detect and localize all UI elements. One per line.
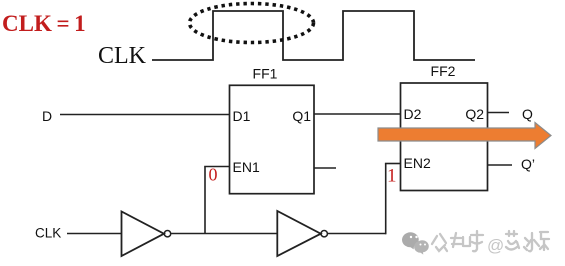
svg-text:CLK: CLK [35,226,61,241]
svg-text:EN2: EN2 [404,155,431,171]
svg-text:Q1: Q1 [292,108,311,124]
svg-text:Q’: Q’ [521,156,535,172]
svg-text:FF1: FF1 [253,66,278,82]
node junction at EN1 riser [204,167,206,234]
flip-flop FF1 box [230,85,315,193]
wire clock waveform [152,11,475,60]
svg-text:0: 0 [209,165,218,185]
wire stub Q-bar output [488,164,513,166]
wire D to D1 [60,114,230,116]
svg-text:1: 1 [387,166,397,187]
watermark WeChat icon [402,232,429,254]
wire inverter1 output to inverter2 [171,233,278,235]
wire EN1 entry [204,166,229,168]
flip-flop FF2 box [401,83,488,191]
svg-text:Q2: Q2 [465,106,484,122]
wire Q1 to D2 [314,113,401,115]
inverter U2 bubble [321,231,327,237]
wire stub Q1-bar (right of FF1) [314,167,336,169]
svg-text:D2: D2 [404,106,422,122]
svg-text:EN1: EN1 [233,159,260,175]
svg-text:@: @ [487,236,504,255]
wire EN2 entry [385,163,401,165]
wire EN2 riser [385,164,387,235]
orange highlight arrow across FF2 [378,123,551,149]
inverter U1 bubble [164,231,170,237]
svg-text:Q: Q [522,106,533,122]
wire inverter2 output to EN2 riser [327,233,385,235]
wire CLK to inverter 1 [67,233,122,235]
svg-text:FF2: FF2 [431,63,456,79]
inverter U1 (NOT gate) [122,212,165,257]
svg-text:D: D [42,108,52,124]
svg-text:CLK = 1: CLK = 1 [2,11,86,36]
inverter U2 (NOT gate) [277,211,321,256]
svg-text:CLK: CLK [98,43,147,69]
wire stub Q2 output [488,112,510,114]
svg-text:D1: D1 [233,108,251,124]
watermark text (stylised CJK strokes) [432,231,549,255]
highlight ellipse (dotted) around first clock pulse [190,4,314,43]
